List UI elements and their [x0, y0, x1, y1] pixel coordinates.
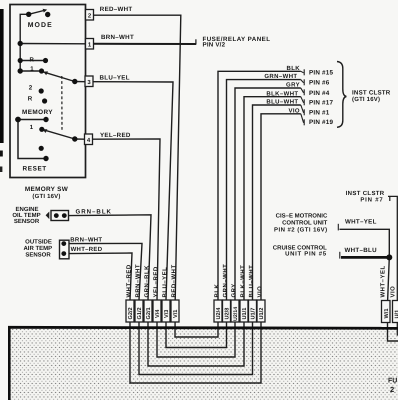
svg-text:FU: FU: [388, 378, 397, 385]
svg-text:GRN–BLK: GRN–BLK: [144, 265, 151, 298]
svg-text:SENSOR: SENSOR: [25, 252, 51, 259]
outside air temp sensor connector: [60, 240, 70, 259]
inst clstr (GTI 16V) label: [352, 89, 391, 103]
svg-text:GRN–WHT: GRN–WHT: [222, 264, 229, 298]
connector box G1/2: [135, 300, 143, 322]
wire contact to pin 4: [75, 138, 85, 140]
wire WHT-RED / VIO : air temp sensor to inst clstr PIN #19: [69, 114, 301, 383]
svg-text:(GTI 16V): (GTI 16V): [352, 96, 380, 103]
connector box V/3: [162, 300, 170, 322]
engine oil temp sensor connector: [46, 211, 69, 221]
fuse/relay panel pin V/2 label: [203, 36, 271, 49]
wire R row: [20, 60, 45, 62]
svg-text:OUTSIDE: OUTSIDE: [25, 238, 52, 245]
svg-text:R: R: [30, 56, 35, 63]
inst clstr pin #7 label: [346, 190, 385, 203]
junction dot WHT-BLU / WHT-YEL: [386, 254, 392, 260]
svg-text:BLK: BLK: [214, 284, 221, 298]
svg-text:VIO: VIO: [389, 286, 396, 298]
fuse text cut at corner: [388, 378, 397, 394]
wire RESET path: [18, 120, 46, 159]
svg-text:R: R: [28, 96, 33, 103]
svg-text:PIN V/2: PIN V/2: [203, 42, 226, 49]
scan artifact bar left edge: [0, 9, 4, 172]
svg-text:INST CLSTR: INST CLSTR: [346, 190, 385, 197]
switch arm MEMORY to pin 4: [42, 129, 75, 139]
cruise control unit label: [273, 244, 327, 257]
connector box at right edge (clipped): [393, 301, 398, 323]
connector tick at fuse/relay panel wire end: [195, 39, 197, 44]
terminal box pin 4: [85, 134, 93, 145]
svg-text:U1/1: U1/1: [241, 308, 248, 320]
svg-text:SENSOR: SENSOR: [14, 218, 40, 225]
svg-text:WHT–RED: WHT–RED: [126, 264, 133, 297]
svg-text:2: 2: [390, 385, 394, 394]
connector box U2/8: [223, 300, 231, 322]
svg-text:V/3: V/3: [163, 310, 170, 318]
wire BRN-WHT : switch pin 1 to fuse/relay panel pin V/2: [94, 43, 197, 45]
svg-text:GRY: GRY: [286, 82, 300, 89]
svg-text:WHT–YEL: WHT–YEL: [380, 265, 387, 297]
svg-text:CIS–E MOTRONIC: CIS–E MOTRONIC: [276, 213, 328, 220]
svg-text:G2/1: G2/1: [145, 307, 152, 319]
rotated wire colour labels above connectors (left bundle): [126, 264, 178, 298]
svg-text:WHT–BLU: WHT–BLU: [345, 247, 378, 254]
wire RED-WHT / BLK : switch pin 2 to inst clstr PIN #15: [94, 15, 301, 337]
wire WHT-BLU : cruise control unit to junction: [341, 256, 389, 259]
svg-text:U2/14: U2/14: [233, 307, 239, 321]
terminal box pin 2: [86, 10, 94, 21]
panel top edge: [8, 327, 398, 328]
terminal box pin 3: [85, 76, 93, 87]
wire BRN-WHT / BLU-WHT : air temp sensor to inst clstr PIN #1: [69, 105, 301, 375]
contact dots of memory switch: [15, 12, 77, 162]
svg-text:PIN #2 (GTI 16V): PIN #2 (GTI 16V): [274, 226, 328, 233]
engine oil temp sensor label: [12, 206, 40, 225]
fuse/relay panel body (stippled area): [8, 327, 398, 400]
svg-text:BRN–WHT: BRN–WHT: [135, 264, 142, 298]
switch arm mode selector to pin 3: [43, 72, 75, 82]
connector box G2/2: [126, 300, 134, 322]
wire contact to pin 3: [75, 81, 85, 83]
svg-text:MODE: MODE: [28, 22, 53, 29]
svg-text:PIN #1: PIN #1: [309, 109, 330, 116]
outside air temp sensor label: [23, 238, 52, 258]
svg-text:VIO: VIO: [288, 107, 300, 114]
inst clstr wire colour labels: [264, 65, 300, 115]
connector box U1/2: [257, 300, 265, 322]
svg-text:PIN #17: PIN #17: [309, 99, 333, 106]
svg-text:YEL–RED: YEL–RED: [153, 266, 160, 297]
svg-text:G1/2: G1/2: [136, 307, 143, 319]
wire BRN-WHT tap inside switch: [20, 43, 85, 45]
connector box U2/14: [231, 300, 239, 322]
wire BLU-YEL / GRN-WHT : switch pin 3 to inst clstr PIN #6: [93, 80, 301, 348]
svg-text:UNIT PIN #5: UNIT PIN #5: [285, 251, 327, 258]
svg-text:RED–WHT: RED–WHT: [100, 6, 133, 13]
switch internal labels: [22, 22, 69, 200]
wire from MODE contact to left bus: [20, 14, 29, 71]
svg-text:RED–WHT: RED–WHT: [171, 264, 178, 297]
svg-text:CRUISE CONTROL: CRUISE CONTROL: [273, 244, 327, 251]
svg-text:BLK–WHT: BLK–WHT: [266, 90, 298, 97]
svg-text:GRN–WHT: GRN–WHT: [264, 73, 297, 80]
wire VIO : inst clstr PIN #7 down right edge: [388, 196, 397, 301]
brace for inst clstr group: [337, 62, 346, 128]
svg-text:YEL–RED: YEL–RED: [100, 132, 131, 139]
wire MEMORY row: [18, 119, 46, 121]
svg-text:RESET: RESET: [23, 166, 47, 173]
svg-text:U2/4: U2/4: [215, 307, 222, 320]
svg-text:PIN #15: PIN #15: [309, 69, 333, 76]
wire GRN-BLK / BLK-WHT : oil temp sensor to inst clstr PIN #17: [69, 97, 301, 366]
svg-text:MEMORY: MEMORY: [22, 109, 53, 116]
svg-text:(GTI 16V): (GTI 16V): [32, 193, 60, 200]
svg-text:MEMORY SW: MEMORY SW: [25, 186, 69, 193]
svg-text:PIN #7: PIN #7: [360, 196, 383, 203]
connector box U1/7: [249, 300, 257, 322]
connector box W/1: [382, 301, 391, 323]
memory switch SW body: [10, 5, 86, 178]
wire 1 row: [20, 70, 41, 72]
svg-text:INST CLSTR: INST CLSTR: [352, 89, 391, 96]
svg-text:2: 2: [29, 84, 33, 91]
svg-text:PIN #4: PIN #4: [309, 90, 330, 97]
wire WHT-YEL : CIS-E motronic control unit to junction: [340, 229, 390, 301]
svg-text:U1/2: U1/2: [258, 308, 265, 320]
mechanical link (dashed): [61, 76, 63, 132]
svg-text:OIL TEMP: OIL TEMP: [12, 212, 40, 219]
svg-text:W/1: W/1: [383, 309, 390, 319]
svg-text:BRN–WHT: BRN–WHT: [70, 237, 102, 244]
svg-text:PIN #6: PIN #6: [309, 80, 330, 87]
svg-text:G2/2: G2/2: [127, 307, 134, 319]
wire YEL-RED / GRY : switch pin 4 to inst clstr PIN #4: [93, 88, 301, 357]
pin connector ticks at inst clstr pins: [301, 69, 304, 125]
svg-text:BLK–WHT: BLK–WHT: [240, 265, 247, 298]
svg-text:GRN–BLK: GRN–BLK: [76, 209, 112, 216]
connector tick at inst clstr PIN #7: [389, 196, 391, 201]
svg-text:V/4: V/4: [154, 309, 161, 318]
svg-text:PIN #19: PIN #19: [309, 119, 333, 126]
inst clstr pin number labels: [309, 69, 333, 126]
CIS-E motronic control unit label: [274, 213, 328, 234]
panel left edge: [8, 327, 11, 400]
wire stub W/1 below box into panel, exits right: [388, 323, 398, 342]
svg-text:U1/7: U1/7: [250, 308, 257, 320]
connector box V/1: [171, 300, 179, 322]
svg-text:U2/8: U2/8: [224, 308, 231, 320]
svg-text:BLU–YEL: BLU–YEL: [162, 267, 169, 298]
svg-text:BLU–YEL: BLU–YEL: [100, 74, 130, 81]
svg-text:V/1: V/1: [172, 310, 179, 318]
svg-text:BRN–WHT: BRN–WHT: [101, 34, 134, 41]
svg-text:U/1: U/1: [393, 310, 398, 319]
svg-text:GRY: GRY: [231, 283, 238, 297]
svg-text:BLK: BLK: [286, 65, 300, 72]
svg-text:WHT–RED: WHT–RED: [71, 246, 103, 253]
connector tick at WHT-BLU wire start: [339, 252, 341, 259]
switch arm MODE: [29, 10, 46, 14]
wire labels at switch terminals: [100, 6, 135, 139]
terminal box pin 1: [86, 39, 94, 50]
connector box G2/1: [144, 300, 152, 322]
svg-text:BLU–WHT: BLU–WHT: [248, 265, 255, 298]
svg-text:ENGINE: ENGINE: [15, 206, 38, 213]
connector box V/4: [153, 300, 161, 322]
svg-text:CONTROL UNIT: CONTROL UNIT: [282, 219, 328, 226]
wire stub VIO below box into panel, exits right: [397, 323, 398, 336]
connector box U1/1: [240, 300, 248, 322]
connector box U2/4: [214, 300, 222, 322]
connector tick at WHT-YEL wire start: [337, 224, 339, 231]
svg-text:BLU–WHT: BLU–WHT: [266, 99, 298, 106]
svg-text:VIO: VIO: [257, 286, 264, 298]
svg-text:WHT–YEL: WHT–YEL: [345, 219, 377, 226]
rotated wire colour labels right edge: [380, 265, 397, 297]
rotated wire colour labels above connectors (right bundle): [214, 264, 264, 298]
svg-text:AIR TEMP: AIR TEMP: [23, 245, 52, 252]
